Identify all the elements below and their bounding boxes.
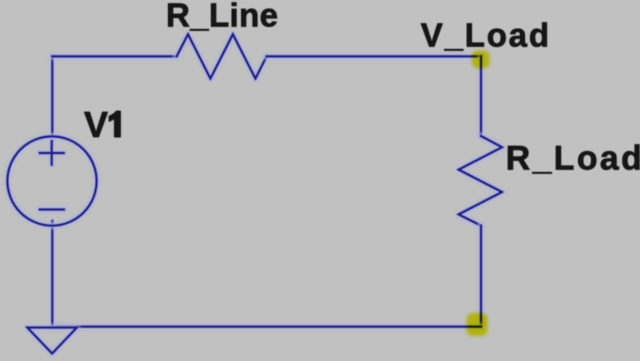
wire: bottom rail [52,324,481,330]
wire: V1 top pin up to top-left corner [49,56,55,141]
svg-text:R_Line: R_Line [166,0,278,33]
resistor R_Load [459,136,502,226]
wire: right rail lower segment [478,226,484,327]
ground [27,328,77,354]
wire: top rail right segment to node V_Load [267,53,481,59]
node marker V_Load [472,51,490,69]
voltage source V1 [7,136,96,225]
svg-text:V: V [84,104,108,145]
wire: left rail below V1 [49,221,55,327]
resistor R_Line [177,34,267,78]
label V1 [84,104,121,145]
svg-text:V_Load: V_Load [421,17,551,54]
svg-text:R_Load: R_Load [506,139,640,177]
node marker ground net [467,313,488,336]
wire: right rail upper segment [478,56,484,136]
wire: top rail left segment [52,53,176,59]
